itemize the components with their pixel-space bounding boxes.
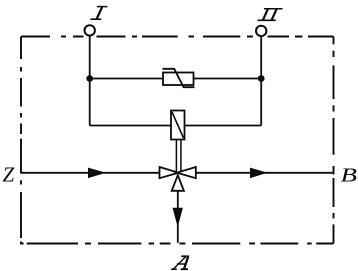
enclosure border left (dash-dot, explicit segments) bbox=[20, 37, 22, 245]
svg-text:B: B bbox=[341, 165, 358, 187]
wire: vertical line down to A bbox=[177, 191, 179, 243]
wire: lower rail right segment bbox=[185, 125, 262, 127]
enclosure border top (dash-dot, explicit segments) bbox=[21, 36, 334, 38]
flow arrow on B line bbox=[250, 168, 268, 179]
valve right triangle bbox=[177, 167, 196, 178]
variable restrictor R diagonal with tails bbox=[163, 69, 195, 87]
pilot valve diagonal bbox=[172, 112, 184, 138]
wire: vertical from port II down to lower rail bbox=[260, 36, 262, 125]
valve left triangle bbox=[160, 167, 179, 178]
wire: upper rail right segment bbox=[194, 78, 261, 80]
enclosure border bottom (dash-dot, explicit segments) bbox=[20, 243, 333, 245]
pilot valve body (rect with diagonal) bbox=[171, 111, 185, 140]
label II (roman numeral, hand-drawn) bbox=[258, 9, 283, 21]
wire: vertical from port I down to lower rail bbox=[89, 36, 91, 126]
flow arrow on Z line bbox=[88, 168, 106, 179]
flow arrow to A bbox=[173, 208, 183, 227]
label A (hand-drawn italic) bbox=[171, 256, 189, 269]
junction dot left bbox=[86, 75, 93, 82]
wire: main line left (Z) bbox=[21, 172, 160, 174]
wire: upper rail left segment bbox=[90, 78, 163, 80]
variable restrictor R body bbox=[163, 73, 194, 86]
valve bottom triangle bbox=[172, 175, 184, 191]
port II terminal circle bbox=[256, 26, 266, 36]
port I terminal circle bbox=[85, 25, 95, 35]
wire: lower rail left segment bbox=[90, 125, 171, 127]
wire: main line right (B) bbox=[196, 172, 333, 174]
junction dot right bbox=[258, 75, 265, 82]
wire: double pilot line left bbox=[175, 140, 177, 172]
svg-text:Z: Z bbox=[3, 163, 15, 187]
enclosure border right (dash-dot, explicit segments) bbox=[333, 37, 335, 244]
label I (roman numeral, hand-drawn) bbox=[90, 7, 107, 20]
wire: double pilot line right bbox=[180, 140, 182, 172]
